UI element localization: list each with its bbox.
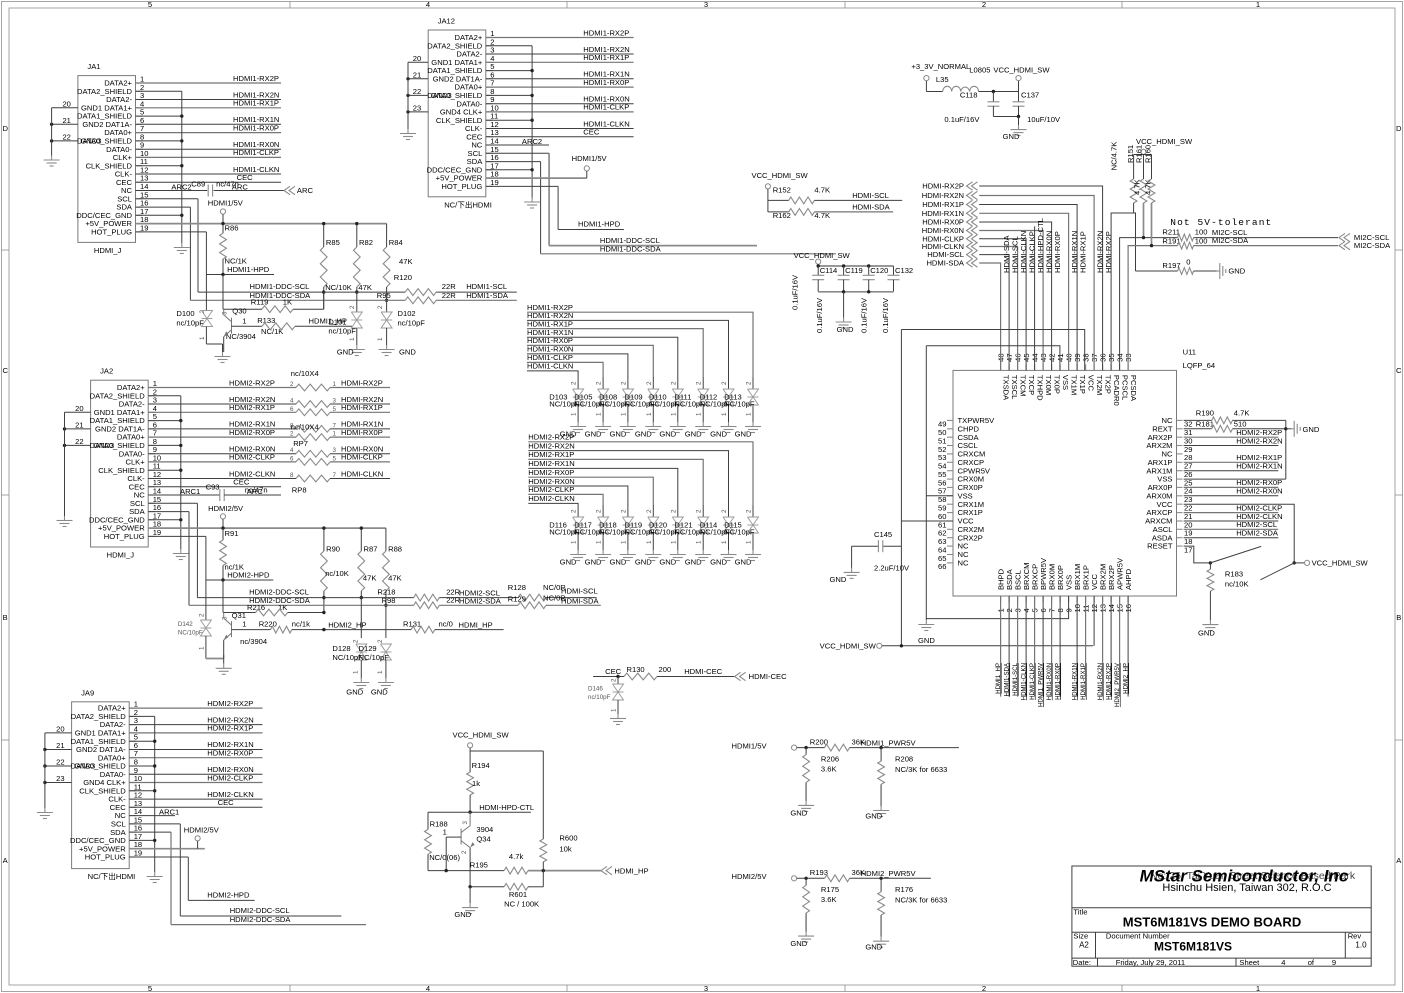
ground C145 [851, 546, 853, 568]
svg-text:MI2C-SDA: MI2C-SDA [1354, 241, 1391, 250]
svg-text:1: 1 [349, 337, 356, 341]
svg-text:HDMI-CEC: HDMI-CEC [749, 672, 787, 681]
svg-text:JA12: JA12 [438, 17, 455, 26]
JA2 +5V row wire [148, 527, 386, 529]
wire net HDMI1-RX1P [486, 61, 634, 63]
svg-text:HDMI2/5V: HDMI2/5V [184, 826, 220, 835]
svg-text:C137: C137 [1021, 91, 1039, 100]
svg-text:HDMI1-DDC-SDA: HDMI1-DDC-SDA [600, 244, 662, 253]
off-page connector MI2C-SDA [1339, 241, 1345, 249]
wire net HDMI1-SCL riser [1017, 596, 1019, 697]
svg-text:22R: 22R [442, 291, 456, 300]
JA2 HOT_PLUG drop wire [148, 535, 206, 537]
svg-text:HDMI-RX2P: HDMI-RX2P [341, 378, 383, 387]
JA2 shield chain wire [148, 395, 181, 397]
JA2 pin 8 [148, 444, 155, 446]
svg-text:HDMI2/5V: HDMI2/5V [208, 504, 244, 513]
wire net HDMI2-SCL [439, 597, 518, 599]
wire net HDMI-SDA pullup [814, 211, 893, 213]
svg-text:GND: GND [790, 939, 807, 948]
svg-text:1: 1 [377, 337, 384, 341]
op-amp U11 body (LQFP_64) [953, 370, 1177, 596]
JA9 pin 18 [129, 848, 136, 850]
wire net HDMI1-RX2P to diode [527, 312, 753, 377]
wire net HDMI2-RX1N right [1184, 470, 1279, 472]
svg-text:HOT_PLUG: HOT_PLUG [91, 228, 132, 237]
svg-text:1: 1 [696, 412, 703, 416]
JA12 pin 19 [486, 185, 493, 187]
cap bank bottom rail wire [818, 291, 893, 293]
svg-text:TX1M: TX1M [1069, 375, 1078, 395]
svg-text:17: 17 [1184, 545, 1192, 554]
svg-text:6: 6 [290, 406, 294, 413]
wire net HDMI1-RX0N riser [1051, 596, 1053, 697]
esd diode D128 [360, 598, 362, 638]
svg-text:C: C [1396, 366, 1402, 375]
svg-text:R193: R193 [810, 868, 828, 877]
wire net HDMI1-RX2P [136, 82, 282, 84]
esd diode D101 [356, 292, 358, 312]
resistor R87 [360, 528, 362, 551]
svg-text:C89: C89 [191, 180, 205, 189]
wire R197 to ground [1194, 270, 1217, 272]
wire HPD to R216 row [222, 580, 224, 613]
svg-text:22: 22 [62, 132, 70, 141]
wire net HDMI2-RX1N to diode [528, 468, 678, 505]
JA1 pin 14 [136, 190, 143, 192]
JA9 pin 3 [129, 724, 136, 726]
wire net HDMI2_PWR5V [850, 877, 931, 879]
wire net HDMI2-RX0N [129, 773, 262, 775]
wire HDMI2_PWR5V row [797, 877, 825, 879]
svg-text:HDMI1-CLKN: HDMI1-CLKN [527, 362, 573, 371]
svg-text:AHPD: AHPD [1124, 568, 1133, 590]
JA2 pin 15 [148, 502, 155, 504]
wire net HDMI2-RX1N [129, 749, 262, 751]
svg-text:1: 1 [571, 540, 578, 544]
svg-text:2: 2 [696, 381, 703, 385]
svg-text:R90: R90 [326, 545, 340, 554]
JA1 pin 11 [136, 165, 143, 167]
svg-text:nc/10X4: nc/10X4 [291, 369, 319, 378]
wire net HDMI1-RX0P riser [1059, 596, 1061, 697]
svg-text:D146: D146 [588, 686, 603, 693]
svg-text:nc/10X4: nc/10X4 [291, 422, 319, 431]
wire net HDMI1-SDA riser [1008, 596, 1010, 697]
wire net HDMI-CLKN [330, 478, 390, 480]
JA2 pin 12 [148, 478, 155, 480]
JA1 pin 12 [136, 173, 143, 175]
JA1 pin 1 [136, 82, 143, 84]
svg-text:HDMI2-CLKP: HDMI2-CLKP [229, 453, 275, 462]
wire net MI2C-SCL [1194, 237, 1338, 239]
JA2 pin 9 [148, 453, 155, 455]
esd diode D115 [752, 505, 754, 517]
wire net HDMI1-CLKP to diode [527, 362, 603, 377]
svg-text:1: 1 [646, 412, 653, 416]
svg-text:R161: R161 [1134, 145, 1143, 163]
svg-text:GND3: GND3 [74, 762, 95, 771]
svg-text:C120: C120 [870, 266, 888, 275]
svg-text:GND: GND [659, 430, 676, 439]
svg-text:2: 2 [982, 0, 986, 9]
esd diode D111 [702, 377, 704, 389]
JA2 left GND pins [65, 411, 91, 413]
svg-text:ARC2: ARC2 [522, 137, 542, 146]
JA12 pin 3 [486, 53, 493, 55]
JA1 pin 7 [136, 132, 143, 134]
svg-text:1: 1 [696, 540, 703, 544]
svg-text:HDMI_HP: HDMI_HP [459, 620, 493, 629]
JA1 SDA drop wire [136, 206, 191, 208]
resistor R88 [385, 528, 387, 551]
resistor network element RP8h [296, 475, 330, 482]
svg-text:1: 1 [242, 316, 246, 325]
JA9 pin 5 [129, 740, 136, 742]
svg-text:Not 5V-tolerant: Not 5V-tolerant [1170, 217, 1272, 228]
JA9 left GND pins [45, 732, 72, 734]
svg-text:R86: R86 [225, 224, 239, 233]
svg-text:10k: 10k [559, 845, 571, 854]
resistor R82 [356, 224, 358, 247]
svg-text:2: 2 [646, 381, 653, 385]
ground R183 [1209, 620, 1211, 625]
svg-text:D100: D100 [176, 309, 194, 318]
svg-text:HDMI2-DDC-SCL: HDMI2-DDC-SCL [230, 906, 290, 915]
svg-text:HDMI-RX1P: HDMI-RX1P [1079, 231, 1088, 273]
JA12 pin 14 [486, 144, 493, 146]
JA12 pin 12 [486, 128, 493, 130]
svg-text:2: 2 [377, 305, 384, 309]
svg-text:JA9: JA9 [81, 688, 94, 697]
wire net HDMI-RX2P [330, 387, 390, 389]
svg-text:TXSCL: TXSCL [1010, 375, 1019, 399]
wire net HDMI2-CLKN to diode [528, 503, 578, 505]
JA1 left GND pins [52, 107, 78, 109]
svg-text:2: 2 [982, 984, 986, 993]
svg-text:47K: 47K [363, 573, 377, 582]
svg-text:HOT_PLUG: HOT_PLUG [104, 532, 145, 541]
JA12 pin 2 [486, 45, 493, 47]
wire net HDMI-RX2N to U11 pin 37 [979, 196, 1094, 371]
svg-text:HDMI-SCL: HDMI-SCL [852, 191, 889, 200]
wire net HDMI1-RX1P [136, 107, 282, 109]
wire net HDMI2-CLKN [148, 478, 296, 480]
svg-text:10uF/10V: 10uF/10V [1027, 115, 1061, 124]
svg-text:4.7k: 4.7k [509, 852, 524, 861]
svg-text:HDMI1-HPD: HDMI1-HPD [578, 220, 621, 229]
JA1 pin 5 [136, 115, 143, 117]
svg-text:VCC_HDMI_SW: VCC_HDMI_SW [1136, 137, 1193, 146]
svg-text:GND: GND [659, 558, 676, 567]
JA2 SDA drop wire [148, 511, 189, 513]
ground D129 [385, 678, 387, 683]
JA12 shield chain wire [486, 45, 532, 47]
svg-text:HDMI1-CLKP: HDMI1-CLKP [1029, 663, 1036, 700]
svg-text:HDMI1-SDA: HDMI1-SDA [466, 291, 509, 300]
wire net HDMI2-CLKP [129, 782, 262, 784]
JA2 pin 2 [148, 395, 155, 397]
JA9 ARC1 stub [129, 815, 175, 817]
svg-text:R197: R197 [1162, 261, 1180, 270]
svg-text:1: 1 [746, 412, 753, 416]
svg-text:MI2C-SDA: MI2C-SDA [1212, 236, 1249, 245]
svg-text:5: 5 [148, 984, 152, 993]
wire net HDMI2-RX1P [148, 411, 296, 413]
svg-text:MST6M181VS: MST6M181VS [1154, 940, 1232, 954]
ground under D120 [677, 550, 679, 555]
svg-text:Q34: Q34 [476, 835, 490, 844]
svg-text:22: 22 [413, 87, 421, 96]
svg-text:4: 4 [1281, 958, 1285, 967]
wire net HDMI1-RX1P to diode [527, 329, 703, 377]
wire Q34 top rail [470, 750, 543, 752]
JA1 SCL drop wire [136, 198, 199, 200]
svg-text:R133: R133 [257, 316, 275, 325]
svg-text:2: 2 [670, 509, 677, 513]
svg-text:HDMI2_PWR5V: HDMI2_PWR5V [1114, 662, 1121, 707]
svg-text:3: 3 [222, 311, 229, 315]
esd diode D109 [652, 377, 654, 389]
wire net HDMI2_HP riser [1127, 596, 1129, 697]
svg-text:NC / 100K: NC / 100K [504, 900, 539, 909]
wire net HDMI-RX0P to U11 pin 42 [979, 222, 1051, 370]
svg-text:CEC: CEC [583, 128, 600, 137]
wire net HDMI2-RX0N to diode [528, 486, 628, 505]
svg-text:HDMI1-RX1P: HDMI1-RX1P [1080, 663, 1087, 700]
JA2 SCL drop wire [148, 502, 197, 504]
svg-text:100: 100 [1195, 237, 1208, 246]
wire net HDMI-RX2N [330, 403, 390, 405]
JA2 shield ground [180, 549, 182, 554]
svg-text:GND: GND [837, 325, 854, 334]
svg-text:3: 3 [333, 447, 337, 454]
svg-text:GND: GND [609, 558, 626, 567]
ground under D116 [577, 550, 579, 555]
wire net HDMI-RX0N to U11 pin 43 [979, 231, 1043, 371]
JA9 pin 2 [129, 715, 136, 717]
svg-text:NC/10pF: NC/10pF [724, 400, 755, 409]
svg-text:HDMI-RX2P: HDMI-RX2P [1104, 231, 1113, 273]
JA2 pin 17 [148, 519, 155, 521]
svg-text:D128: D128 [332, 644, 350, 653]
svg-text:HOT_PLUG: HOT_PLUG [85, 853, 126, 862]
wire net HDMI-SDA [546, 604, 601, 606]
ground R175 [805, 932, 807, 937]
wire net HDMI2-RX2P [148, 387, 296, 389]
svg-text:GND: GND [710, 558, 727, 567]
svg-text:U11: U11 [1183, 348, 1196, 357]
svg-text:HDMI1-SCL: HDMI1-SCL [466, 282, 507, 291]
resistor network element RP8g [296, 459, 330, 466]
resistor network element RP7c [296, 409, 330, 416]
svg-text:Title: Title [1073, 908, 1087, 917]
wire net HDMI1-RX1N to diode [527, 337, 678, 377]
svg-text:GND: GND [1198, 629, 1215, 638]
wire VSS pin25 right [1184, 478, 1286, 480]
svg-text:3: 3 [704, 984, 708, 993]
capacitor C93 [219, 489, 221, 501]
wire net HDMI2-RX0N right [1184, 495, 1279, 497]
svg-text:R84: R84 [389, 238, 403, 247]
svg-text:1.0: 1.0 [1355, 941, 1367, 950]
wire VSS pin58 to rail [926, 495, 953, 497]
svg-text:47K: 47K [358, 283, 372, 292]
svg-text:2: 2 [746, 381, 753, 385]
svg-text:D142: D142 [178, 621, 193, 628]
esd diode D116 [577, 505, 579, 517]
svg-text:R87: R87 [364, 545, 378, 554]
wire net HDMI1-CLKN [136, 173, 282, 175]
JA9 pin 7 [129, 757, 136, 759]
svg-text:200: 200 [659, 665, 672, 674]
JA9 pin 17 [129, 839, 136, 841]
wire net HDMI2-RX1P [129, 732, 262, 734]
ground under D105 [602, 422, 604, 427]
svg-text:R85: R85 [326, 238, 340, 247]
svg-text:R162: R162 [773, 211, 791, 220]
svg-text:Friday, July 29, 2011: Friday, July 29, 2011 [1116, 958, 1185, 967]
wire net HDMI1_PWR5V [850, 747, 959, 749]
ground under D110 [677, 422, 679, 427]
svg-text:GND: GND [735, 558, 752, 567]
JA2 pin 7 [148, 436, 155, 438]
svg-text:1: 1 [620, 540, 627, 544]
svg-text:3: 3 [462, 821, 469, 825]
svg-text:HDMI2-CLKN: HDMI2-CLKN [528, 494, 574, 503]
wire VCC pin61 to rail [901, 520, 953, 522]
svg-text:GND: GND [1228, 267, 1245, 276]
esd diode D120 [677, 505, 679, 517]
svg-text:nc/10pF: nc/10pF [588, 694, 611, 701]
JA1 pin 13 [136, 181, 143, 183]
svg-text:2: 2 [696, 509, 703, 513]
svg-text:0.1uF/16V: 0.1uF/16V [790, 274, 799, 310]
JA12 pin 8 [486, 94, 493, 96]
svg-text:1: 1 [620, 412, 627, 416]
JA2 pin 4 [148, 411, 155, 413]
svg-text:VCC_HDMI_SW: VCC_HDMI_SW [752, 171, 809, 180]
svg-text:+3_3V_NORMAL: +3_3V_NORMAL [911, 62, 970, 71]
svg-text:C: C [2, 366, 8, 375]
ground cap bank [843, 292, 845, 318]
svg-text:HDMI1-RX0P: HDMI1-RX0P [233, 123, 279, 132]
wire net HDMI2-RX2N right [1184, 445, 1279, 447]
wire net HDMI1-HPD at JA12 [558, 229, 624, 231]
svg-text:2: 2 [571, 509, 578, 513]
JA2 pin 14 [148, 494, 155, 496]
svg-text:1: 1 [1256, 984, 1260, 993]
svg-text:R601: R601 [509, 890, 527, 899]
ground under D109 [652, 422, 654, 427]
wire net HDMI1_HP riser [1000, 596, 1002, 697]
wire net HDMI-SCL to U11 pin 47 [979, 255, 1009, 371]
JA12 pin 9 [486, 103, 493, 105]
wire net HDMI2_PWR5V riser [1119, 596, 1121, 697]
svg-text:C114: C114 [820, 266, 838, 275]
wire net HDMI2-RX0P to diode [528, 477, 653, 505]
power port VCC_HDMI_SW right [1294, 562, 1304, 564]
wire net HDMI2-CLKP right [1184, 512, 1279, 514]
svg-text:1k: 1k [472, 779, 480, 788]
wire VCC rail [901, 330, 1084, 371]
svg-text:HDMI1-RX2P: HDMI1-RX2P [1105, 663, 1112, 700]
svg-text:HDMI-RX0P: HDMI-RX0P [341, 428, 383, 437]
off-page connector HDMI_HP [601, 866, 607, 874]
wire diagonal stub upper [1210, 546, 1261, 563]
svg-text:Sheet: Sheet [1239, 958, 1260, 967]
svg-text:HDMI2-SDA: HDMI2-SDA [1236, 529, 1279, 538]
svg-text:GND: GND [346, 688, 363, 697]
svg-text:C132: C132 [895, 266, 913, 275]
wire net HDMI-CLKP [330, 461, 390, 463]
ground under D118 [627, 550, 629, 555]
svg-text:HDMI2-HPD: HDMI2-HPD [227, 570, 270, 579]
svg-text:2: 2 [746, 509, 753, 513]
wire net HDMI2-DDC-SCL [197, 597, 413, 599]
svg-text:HDMI2-RX0P: HDMI2-RX0P [207, 749, 253, 758]
wire RESET pin17 [1184, 546, 1211, 563]
svg-text:2: 2 [620, 381, 627, 385]
svg-text:HDMI2-RX1P: HDMI2-RX1P [207, 724, 253, 733]
wire net HDMI2-HPD at JA9 [188, 899, 254, 901]
wire net HDMI1-CLKN [486, 128, 634, 130]
resistor R85 [323, 224, 325, 247]
ground D101 [356, 345, 358, 350]
wire Q31 base [232, 629, 249, 631]
svg-text:D: D [2, 124, 8, 133]
svg-text:JA1: JA1 [87, 62, 100, 71]
svg-text:0.1uF/16V: 0.1uF/16V [881, 297, 890, 333]
JA12 pin 5 [486, 70, 493, 72]
svg-text:2: 2 [620, 509, 627, 513]
svg-text:HDMI1-RX1P: HDMI1-RX1P [527, 319, 573, 328]
wire ARC after C93 [224, 494, 281, 496]
svg-text:22: 22 [75, 437, 83, 446]
wire net HDMI_HP to chevron [528, 870, 601, 872]
wire net HDMI1-RX2N to diode [527, 320, 729, 377]
svg-text:HDMI2-RX2P: HDMI2-RX2P [229, 378, 275, 387]
wire net MI2C-SDA [1194, 245, 1338, 247]
svg-text:HDMI1/5V: HDMI1/5V [208, 199, 244, 208]
svg-text:1: 1 [353, 670, 360, 674]
ground D128 [360, 678, 362, 683]
svg-text:HDMI2-RX2P: HDMI2-RX2P [207, 699, 253, 708]
JA1 ARC row: wire [136, 190, 208, 192]
svg-text:1: 1 [596, 412, 603, 416]
svg-text:HDMI-SDA: HDMI-SDA [852, 203, 890, 212]
wire net CEC JA2 [148, 486, 281, 488]
esd diode D110 [677, 377, 679, 389]
svg-text:HDMI-RX2N: HDMI-RX2N [922, 191, 964, 200]
svg-text:R175: R175 [821, 885, 839, 894]
svg-text:1: 1 [721, 412, 728, 416]
svg-text:HDMI2-RX1N: HDMI2-RX1N [1236, 462, 1282, 471]
JA2 pin 6 [148, 428, 155, 430]
wire net HDMI2-CLKP to diode [528, 494, 603, 505]
JA1 pin 17 [136, 214, 143, 216]
resistor network element RP8e [296, 434, 330, 441]
svg-text:GND: GND [399, 348, 416, 357]
svg-text:NC/3904: NC/3904 [226, 332, 256, 341]
svg-text:NC/4.7K: NC/4.7K [1109, 142, 1118, 171]
wire net HDMI1-RX2P [486, 37, 634, 39]
svg-text:9: 9 [1332, 958, 1336, 967]
svg-text:HDMI-HPD-CTL: HDMI-HPD-CTL [479, 803, 534, 812]
JA2 pin 10 [148, 461, 155, 463]
svg-text:HDMI2-HPD: HDMI2-HPD [207, 891, 250, 900]
svg-text:1: 1 [199, 336, 206, 340]
